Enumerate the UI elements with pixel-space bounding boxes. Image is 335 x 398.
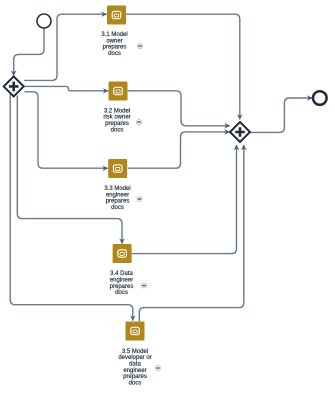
- svg-text:3.1 Modelownerpreparesdocs: 3.1 Modelownerpreparesdocs: [101, 32, 127, 57]
- svg-text:3.4 Dataengineerpreparesdocs: 3.4 Dataengineerpreparesdocs: [110, 271, 134, 296]
- svg-text:3.2 Modelrisk ownerpreparesdoc: 3.2 Modelrisk ownerpreparesdocs: [103, 108, 130, 133]
- svg-text:3.5 Modeldeveloper ordataengin: 3.5 Modeldeveloper ordataengineerprepare…: [118, 349, 151, 387]
- svg-text:3.3 Modelengineerpreparesdocs: 3.3 Modelengineerpreparesdocs: [104, 186, 130, 211]
